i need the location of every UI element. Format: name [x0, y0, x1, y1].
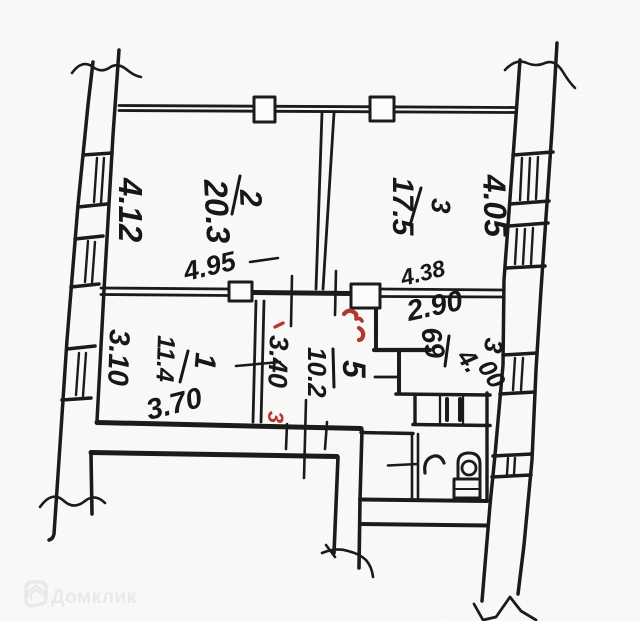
column box 1 on middle wall [229, 282, 252, 301]
room 2 fraction slash [232, 176, 240, 214]
bathroom bottom wall [360, 500, 487, 502]
entry door tick t3 [325, 422, 327, 449]
toilet bowl circle [462, 461, 476, 475]
door swing arc [425, 456, 444, 473]
svg-text:1: 1 [188, 351, 222, 371]
middle wall left segment lower line [101, 295, 229, 296]
top wall lower line [119, 111, 516, 113]
vent shaft left wall [413, 396, 416, 424]
divider wall rooms 2-3 right line [323, 113, 334, 289]
window W3 left wall cap top [67, 346, 95, 349]
hall left wall line a [253, 301, 256, 422]
window WR3 kitchen cap top [503, 353, 537, 355]
window WR2 hatch lines [515, 228, 533, 264]
corridor top wall [97, 423, 361, 429]
window W1 hatch lines [94, 158, 104, 203]
right exterior wall outer line [518, 43, 557, 594]
vent shaft bottom line [413, 425, 490, 426]
window W2 hatch lines [85, 241, 95, 283]
break squiggle top-right [505, 62, 575, 88]
svg-text:3: 3 [425, 198, 456, 214]
left exterior wall outer line [49, 62, 93, 540]
window W3 hatch lines [76, 353, 86, 396]
vent shaft dash 2 [458, 399, 462, 420]
bathroom door tick [388, 464, 417, 466]
svg-text:3: 3 [263, 411, 288, 423]
corridor lower-left vertical to break [334, 457, 338, 553]
window W3 cap bottom [62, 398, 91, 400]
apartment bottom outer wall [360, 524, 488, 526]
break squiggle top-left [72, 64, 141, 77]
svg-text:4.05: 4.05 [476, 173, 514, 239]
room 3 fraction slash [411, 188, 421, 222]
dimension 4.95 tail line [250, 258, 278, 262]
toilet bowl arch [454, 453, 480, 498]
left exterior wall inner line [97, 50, 119, 421]
bathroom left wall line b [417, 434, 420, 498]
entry door tick t1 [286, 424, 287, 449]
right exterior wall inner line [482, 60, 520, 601]
break squiggle bottom-left [40, 497, 105, 507]
hall left wall line b [261, 301, 264, 422]
middle wall door span single line [252, 293, 351, 294]
room 1 fraction slash [180, 351, 188, 382]
break zigzag bottom-right [474, 597, 536, 620]
toilet tank [454, 479, 480, 498]
kitchen fraction slash [445, 336, 449, 366]
entry door tick t2 [304, 400, 306, 478]
vent shaft top line [396, 394, 490, 395]
room 2 label 2/20.3 [101, 173, 514, 427]
top wall upper line [119, 106, 516, 108]
middle wall right segment upper line [380, 289, 503, 290]
window WR4 hatch lines [507, 458, 515, 474]
window WR3 hatch lines [513, 358, 523, 390]
step wall B horizontal [374, 348, 430, 352]
window WR2 cap top [509, 223, 548, 226]
svg-text:3.10: 3.10 [101, 329, 135, 387]
red speck [275, 323, 283, 327]
middle wall right segment lower line [380, 295, 503, 298]
bathroom left wall line a [411, 434, 414, 498]
hall left wall door tick [236, 362, 280, 366]
column box 2 on top wall [370, 97, 394, 121]
svg-text:10.2: 10.2 [302, 347, 332, 398]
corridor bottom wall [91, 453, 337, 457]
window WR4 cap bottom [492, 475, 531, 477]
svg-text:11.4: 11.4 [150, 335, 180, 383]
vent shaft divider 2 [462, 396, 464, 424]
vent shaft divider 1 [439, 396, 441, 424]
svg-text:3.40: 3.40 [262, 335, 294, 389]
svg-text:5: 5 [336, 360, 372, 379]
window WR1 right wall cap top [513, 152, 553, 155]
column box 1 on top wall [229, 97, 394, 308]
toilet tank inner line [456, 488, 478, 490]
room 5 fraction slash [333, 349, 334, 387]
window WR2 cap bottom [506, 266, 545, 268]
window WR4 bath cap top [493, 454, 532, 456]
window W2 cap bottom [71, 284, 99, 287]
step door tick D [375, 376, 397, 379]
middle wall left segment upper line [101, 288, 229, 289]
arrow tick at break [326, 545, 335, 557]
door tick m2 [335, 271, 336, 315]
entry left vertical [91, 454, 92, 514]
vent shaft dash 1 [445, 399, 449, 420]
break squiggle bottom-center [322, 549, 373, 577]
svg-text:2: 2 [233, 188, 269, 207]
watermark logo [26, 582, 46, 606]
bathroom right wall [485, 393, 488, 501]
lobby top wall [361, 433, 413, 434]
divider wall rooms 2-3 left line [316, 113, 322, 289]
door tick m1 [291, 276, 292, 326]
column box 2 on middle wall [351, 284, 380, 308]
window WR3 cap bottom [500, 392, 535, 394]
window WR1 cap bottom [510, 201, 549, 204]
window W2 left wall cap top [75, 236, 103, 239]
window WR1 hatch lines [520, 157, 538, 200]
step wall C vertical [397, 351, 401, 392]
window W1 left wall cap top [83, 153, 112, 155]
corridor right vertical to break [359, 430, 362, 568]
svg-text:4.12: 4.12 [112, 177, 149, 243]
svg-text:Домклик: Домклик [51, 587, 137, 608]
red note 5 [344, 311, 363, 340]
step wall A below box [374, 308, 378, 348]
window W1 cap bottom [78, 204, 107, 207]
